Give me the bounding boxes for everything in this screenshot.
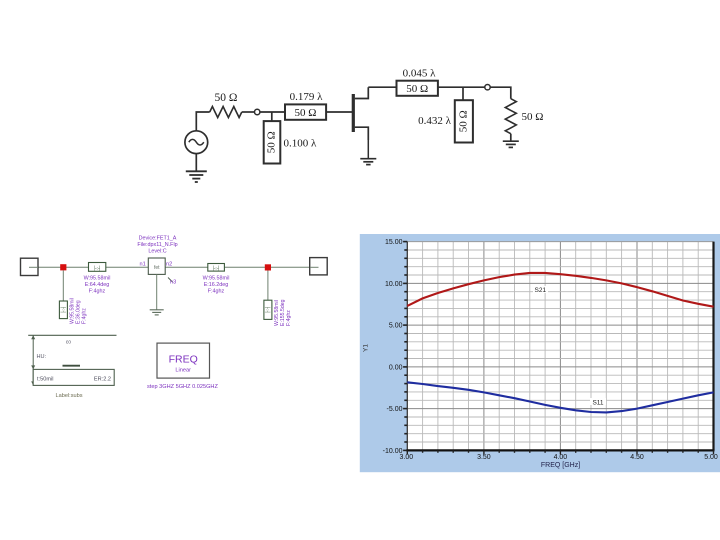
label S21 [533,286,548,294]
svg-text:S21: S21 [535,287,547,294]
svg-text:n2: n2 [166,261,172,267]
plot area [407,242,713,451]
grid: major vertical lines [484,242,637,451]
resistor RL 50 ohm (load, vertical zigzag) [505,99,516,134]
substrate MSUB drawing: height arrow [31,335,35,385]
svg-text:50 Ω: 50 Ω [522,111,544,123]
wire: J1 to stub ST1 [62,270,64,301]
x axis ticks [407,450,713,454]
wire: node to load resistor [490,87,511,99]
svg-text:File:dpx11_N.Flp: File:dpx11_N.Flp [137,242,177,248]
svg-text:3.00: 3.00 [399,454,413,461]
label S11 [590,398,606,407]
wire: source bottom to ground [195,154,197,172]
ground (below source) [186,171,207,182]
wire: node to series line TL1 [260,111,285,113]
substrate MSUB drawing: top line [28,334,116,336]
ground (load) [503,141,519,147]
svg-text:├:┤: ├:┤ [264,306,271,314]
svg-text:15.00: 15.00 [385,239,403,246]
svg-text:0.432 λ: 0.432 λ [418,115,452,127]
transistor Q1 (MESFET) [353,87,368,140]
graph panel background [360,234,720,472]
svg-text:E:64.4deg: E:64.4deg [85,282,110,288]
svg-text:step 3GHZ 5GHZ 0.025GHZ: step 3GHZ 5GHZ 0.025GHZ [147,384,218,390]
stub element ST2 (shunt, right) [264,300,272,319]
svg-text:0.100 λ: 0.100 λ [284,138,318,150]
svg-text:50 Ω: 50 Ω [458,110,470,132]
wire: junction down to shunt stub TL2 [271,112,273,121]
substrate box [33,369,114,385]
transmission line TL2 shunt stub 50 ohm 0.100 lambda (box) [264,121,281,163]
svg-text:├:┤: ├:┤ [60,306,67,314]
svg-text:HU:: HU: [37,354,47,360]
source V1 (AC generator) [185,131,208,154]
axis frame [406,242,714,451]
value label ST2 (rotated) [274,299,292,326]
junction J1 (red, left) [60,264,66,270]
svg-text:4.50: 4.50 [630,454,644,461]
y axis ticks [403,242,407,451]
wire: transistor source to ground [367,140,369,159]
transmission line TL1 series 50 ohm 0.179 lambda (box) [285,104,326,119]
svg-text:F:4ghz: F:4ghz [82,308,88,324]
svg-text:0.179 λ: 0.179 λ [290,91,324,103]
wire: TL1 to transistor gate [326,111,352,113]
port P1 (left) [21,258,39,275]
svg-text:50 Ω: 50 Ω [295,107,317,119]
transmission line element TL1 (series, left) [89,263,106,272]
svg-text:F:4ghz: F:4ghz [286,310,292,326]
svg-text:3.50: 3.50 [477,454,491,461]
x axis labels [399,454,717,461]
svg-text:Linear: Linear [175,368,191,374]
curve S21 (red) [407,273,713,307]
node (open circle at source plane) [255,109,260,114]
FREQ analysis box [157,343,210,378]
ground (transistor source) [360,159,376,165]
svg-text:FREQ: FREQ [169,354,198,366]
wire: resistor to node [242,111,255,113]
svg-text:0.00: 0.00 [389,364,403,371]
wire: TL3 to output node [438,86,485,88]
svg-text:├:┤: ├:┤ [93,265,101,272]
svg-text:0.045 λ: 0.045 λ [403,68,437,80]
y axis labels [383,239,403,455]
resistor 50 ohm (series, source) [210,107,242,118]
svg-text:Level:C: Level:C [148,249,166,255]
node (open circle at load plane) [485,85,490,90]
svg-text:Y1: Y1 [363,344,370,352]
value label TL1 [84,276,111,295]
svg-text:S11: S11 [592,400,603,407]
wire: junction down to shunt stub TL4 [462,87,464,100]
svg-text:ER:2.2: ER:2.2 [94,376,111,382]
svg-text:εo: εo [66,340,71,346]
FET U1 (device box) [148,258,172,282]
wire: source top to main line [196,112,209,131]
grid: major horizontal lines [407,283,713,408]
transmission line element TL2 (series, right) [208,264,225,272]
transmission line TL3 series 50 ohm 0.045 lambda (box) [397,81,438,96]
svg-text:50 Ω: 50 Ω [215,92,238,104]
svg-text:W:95.58mil: W:95.58mil [84,276,111,282]
grid: minor horizontal lines [407,250,713,442]
ground (FET source) [150,310,164,315]
svg-text:10.00: 10.00 [385,281,403,288]
wire: inside port P2 [310,266,319,268]
port P2 (right) [310,258,328,275]
grid: minor vertical lines [423,242,699,451]
svg-text:50 Ω: 50 Ω [406,83,428,95]
svg-text:E:16.2deg: E:16.2deg [204,282,229,288]
wire: load resistor to ground [510,134,512,141]
device label (FET) [137,236,177,255]
value label ST1 (rotated) [70,298,88,324]
svg-text:W:95.58mil: W:95.58mil [203,276,230,282]
wire: J2 to stub ST2 [267,271,269,301]
svg-text:F:4ghz: F:4ghz [208,289,225,295]
svg-text:├:┤: ├:┤ [212,265,220,272]
svg-text:t:50mil: t:50mil [37,376,53,382]
svg-text:5.00: 5.00 [704,454,718,461]
svg-text:5.00: 5.00 [389,323,403,330]
svg-text:Device:FET1_A: Device:FET1_A [139,236,177,242]
transmission line TL4 shunt stub 50 ohm 0.432 lambda (box) [455,100,473,142]
stub element ST1 (shunt, left) [59,301,67,319]
svg-text:n1: n1 [140,261,146,267]
wire: FET to ground [156,274,158,309]
svg-text:n3: n3 [170,280,176,286]
svg-text:Label:subs: Label:subs [56,393,83,399]
curve S11 (blue) [407,382,713,412]
svg-text:fet: fet [154,265,160,271]
value label TL2 [203,276,230,295]
junction J2 (red, right) [265,264,271,270]
wire: main net left port to right port [29,266,318,268]
svg-text:50 Ω: 50 Ω [266,131,278,153]
wire: transistor drain to series line TL3 [368,86,396,88]
microstrip conductor mark [63,365,81,367]
svg-text:4.00: 4.00 [554,454,568,461]
wire: inside port P1 [29,266,38,268]
svg-text:FREQ [GHz]: FREQ [GHz] [541,462,580,469]
svg-text:-5.00: -5.00 [387,406,403,413]
svg-text:F:4ghz: F:4ghz [89,289,106,295]
